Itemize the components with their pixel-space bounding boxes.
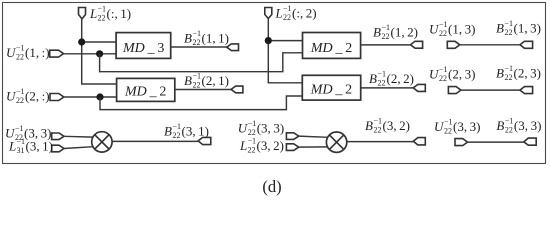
svg-text:U−122(3, 3): U−122(3, 3) [434, 118, 481, 136]
input port L22(3,2) tag [286, 144, 298, 151]
wire L22(3,2) to multiplier M2 [299, 146, 328, 148]
input port U22(2,3) tag [448, 87, 461, 94]
caption (d) [262, 177, 281, 196]
wire branch down from U22(2,:) [100, 96, 302, 110]
svg-text:B−122(2, 3): B−122(2, 3) [496, 64, 541, 82]
junction dot at L22(:,1)/MD_3 [78, 38, 85, 45]
junction dot on U22(2,:) wire [96, 93, 103, 100]
wire left MD_2 output [176, 89, 232, 91]
output port B22(2,1) tag [231, 86, 243, 93]
multiplier M2 [326, 132, 346, 152]
block MD_2 right-top [303, 33, 361, 59]
label U22^-1(1,:) [6, 44, 50, 62]
label L31^-1(3,1) [8, 137, 53, 155]
input port U22(1,:) tag [50, 50, 64, 57]
output port B22(1,3) tag [520, 41, 533, 48]
svg-text:B−122(1, 2): B−122(1, 2) [373, 23, 418, 41]
wire right-top MD_2 output [361, 44, 410, 46]
junction dot on U22(1,:) wire [96, 50, 103, 57]
wire to MD_3 input1 [82, 41, 116, 43]
block MD_2 right-bottom [302, 75, 360, 100]
label U22^-1(3,3) left [5, 124, 52, 142]
wire U22(1,3) to B22(1,3) [460, 44, 520, 46]
wire M1 to B22(3,1) [112, 140, 198, 142]
label B22^-1(1,1) [184, 29, 229, 47]
label U22^-1(2,3) [429, 65, 476, 83]
junction dot at L22(:,2) [265, 37, 272, 44]
wire U22(1,:) to MD_3 input2 [64, 53, 117, 55]
svg-text:U−122(1, 3): U−122(1, 3) [429, 20, 476, 38]
svg-text:B−122(3, 2): B−122(3, 2) [365, 117, 410, 135]
block MD_3 [116, 33, 171, 59]
label L22^-1(:,2) [275, 4, 317, 22]
wire bend into left MD_2 input1 [81, 83, 117, 85]
input port U22(3,3) middle tag [286, 133, 298, 140]
label B22^-1(1,2) [373, 23, 418, 41]
svg-text:(d): (d) [262, 177, 281, 196]
svg-text:MD _ 2: MD _ 2 [310, 83, 352, 98]
wire U22(2,3) to B22(2,3) [461, 89, 520, 91]
label U22^-1(1,3) [429, 20, 476, 38]
wire right-bottom MD_2 output [362, 87, 414, 89]
input port L31(3,1) tag [52, 145, 64, 152]
label B22^-1(3,2) [365, 117, 410, 135]
svg-text:MD _ 2: MD _ 2 [124, 84, 166, 99]
input port L22(:,2) top tag [265, 8, 272, 19]
svg-text:U−122(1, :): U−122(1, :) [6, 44, 50, 62]
wire M2 to B22(3,2) [347, 141, 414, 143]
svg-text:U−122(2, 3): U−122(2, 3) [429, 65, 476, 83]
svg-text:B−122(3, 3): B−122(3, 3) [496, 117, 541, 135]
svg-text:U−122(3, 3): U−122(3, 3) [238, 119, 285, 137]
input port U22(3,3) right tag [455, 139, 468, 146]
label B22^-1(2,3) [496, 64, 541, 82]
label L22^-1(3,2) [239, 137, 284, 155]
svg-text:L−122(:, 1): L−122(:, 1) [89, 5, 131, 23]
svg-text:B−122(1, 3): B−122(1, 3) [496, 19, 541, 37]
wire branch down from U22(1,:) [100, 53, 303, 72]
frame border [3, 3, 546, 164]
output port B22(2,2) tag [413, 84, 425, 91]
output port B22(3,3) tag [524, 138, 536, 145]
wire to right-top MD_2 input1 [268, 40, 302, 42]
wire bend into lower-right MD_2 input1 [268, 82, 303, 84]
multiplier M1 [92, 132, 112, 152]
output port B22(3,2) tag [413, 138, 425, 145]
wire U22(3,3) to multiplier M2 [299, 136, 328, 137]
label B22^-1(2,2) [369, 70, 414, 88]
svg-text:B−122(2, 2): B−122(2, 2) [369, 70, 414, 88]
wire U22(3,3) to B22(3,3) [468, 141, 524, 143]
svg-text:L−131(3, 1): L−131(3, 1) [8, 137, 53, 155]
input port U22(1,3) tag [447, 41, 460, 48]
label U22^-1(2,:) [6, 87, 50, 105]
svg-text:B−122(3, 1): B−122(3, 1) [164, 122, 209, 140]
input port U22(2,:) tag [50, 94, 64, 101]
output port B22(3,1) tag [198, 137, 211, 144]
wire vertical from L22(:,1) [81, 19, 83, 84]
wire L31(3,1) to multiplier M1 [64, 147, 93, 149]
label U22^-1(3,3) middle [238, 119, 285, 137]
wire vertical from L22(:,2) [267, 19, 269, 83]
output port B22(2,3) tag [520, 87, 533, 94]
wire U22(3,3) to multiplier M1 [64, 135, 93, 138]
input port L22(:,1) top tag [79, 8, 86, 20]
svg-text:MD _ 3: MD _ 3 [122, 41, 164, 56]
svg-text:L−122(:, 2): L−122(:, 2) [275, 4, 317, 22]
svg-text:U−122(2, :): U−122(2, :) [6, 87, 50, 105]
svg-text:B−122(2, 1): B−122(2, 1) [184, 72, 229, 90]
label B22^-1(1,3) [496, 19, 541, 37]
wire MD_3 output [172, 46, 227, 48]
label U22^-1(3,3) right [434, 118, 481, 136]
label B22^-1(2,1) [184, 72, 229, 90]
output port B22(1,2) tag [411, 41, 423, 48]
block MD_2 left [117, 78, 175, 101]
svg-text:L−122(3, 2): L−122(3, 2) [239, 137, 284, 155]
input port U22(3,3) left tag [52, 133, 64, 140]
wire U22(2,:) to left MD_2 input2 [64, 96, 117, 98]
label B22^-1(3,1) [164, 122, 209, 140]
svg-text:MD _ 2: MD _ 2 [310, 41, 352, 56]
output port B22(1,1) tag [227, 44, 239, 51]
svg-text:B−122(1, 1): B−122(1, 1) [184, 29, 229, 47]
label L22^-1(:,1) [89, 5, 131, 23]
label B22^-1(3,3) [496, 117, 541, 135]
